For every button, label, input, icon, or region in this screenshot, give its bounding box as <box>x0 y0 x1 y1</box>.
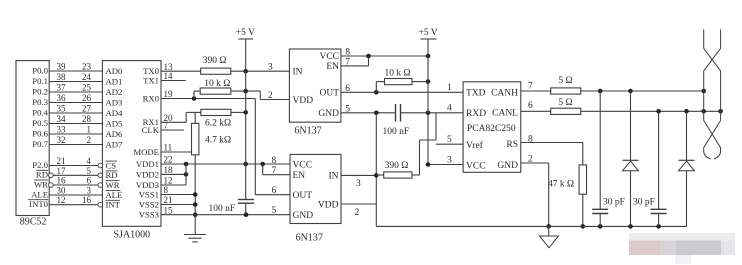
svg-text:3: 3 <box>268 62 273 72</box>
svg-text:28: 28 <box>82 114 92 124</box>
svg-text:VDD: VDD <box>318 200 339 210</box>
svg-text:P0.0: P0.0 <box>32 65 48 75</box>
svg-text:4.7 kΩ: 4.7 kΩ <box>205 135 231 145</box>
svg-text:19: 19 <box>164 89 174 99</box>
svg-text:OUT: OUT <box>293 191 313 201</box>
svg-text:8: 8 <box>164 185 169 195</box>
svg-text:SJA1000: SJA1000 <box>114 230 151 241</box>
svg-text:2: 2 <box>87 135 92 145</box>
svg-text:ALE: ALE <box>31 189 48 199</box>
svg-text:2: 2 <box>268 91 273 101</box>
svg-text:AD3: AD3 <box>106 97 123 107</box>
svg-text:TXD: TXD <box>466 89 486 99</box>
svg-text:EN: EN <box>293 171 306 181</box>
svg-text:WR: WR <box>106 180 120 190</box>
svg-text:VCC: VCC <box>319 52 339 62</box>
svg-text:3: 3 <box>356 179 361 189</box>
svg-text:MODE: MODE <box>133 147 159 157</box>
svg-text:IN: IN <box>293 68 303 78</box>
svg-text:AD0: AD0 <box>106 66 124 76</box>
svg-text:3: 3 <box>87 186 92 196</box>
svg-text:TX1: TX1 <box>143 75 159 85</box>
svg-text:VDD2: VDD2 <box>136 169 159 179</box>
svg-text:30 pF: 30 pF <box>603 197 625 207</box>
svg-text:RXD: RXD <box>466 109 486 119</box>
svg-text:6.2 kΩ: 6.2 kΩ <box>205 119 231 129</box>
svg-text:P0.2: P0.2 <box>32 86 48 96</box>
svg-text:5 Ω: 5 Ω <box>558 98 572 108</box>
svg-text:2: 2 <box>355 208 360 218</box>
svg-text:7: 7 <box>528 82 533 92</box>
svg-text:RD: RD <box>36 170 48 180</box>
svg-text:17: 17 <box>57 166 67 176</box>
svg-text:37: 37 <box>57 83 67 93</box>
svg-text:8: 8 <box>528 135 533 145</box>
svg-text:+5 V: +5 V <box>419 28 438 38</box>
svg-text:21: 21 <box>57 156 66 166</box>
svg-text:6N137: 6N137 <box>296 233 323 244</box>
svg-text:27: 27 <box>82 104 92 114</box>
svg-text:39: 39 <box>57 62 67 72</box>
svg-text:5: 5 <box>272 206 277 216</box>
svg-text:+5 V: +5 V <box>236 28 255 38</box>
svg-text:AD2: AD2 <box>106 87 123 97</box>
svg-text:AD5: AD5 <box>106 118 123 128</box>
svg-text:16: 16 <box>82 195 92 205</box>
svg-text:VSS2: VSS2 <box>139 199 159 209</box>
svg-text:14: 14 <box>164 71 174 81</box>
svg-text:P2.0: P2.0 <box>32 160 48 170</box>
svg-text:35: 35 <box>57 104 67 114</box>
svg-text:P0.4: P0.4 <box>32 107 48 117</box>
svg-text:390 Ω: 390 Ω <box>385 161 409 171</box>
svg-text:23: 23 <box>82 62 92 72</box>
svg-text:22: 22 <box>164 155 173 165</box>
svg-text:30: 30 <box>57 186 67 196</box>
svg-text:AD1: AD1 <box>106 76 123 86</box>
svg-text:1: 1 <box>87 125 92 135</box>
svg-text:VCC: VCC <box>466 161 486 171</box>
svg-text:IN: IN <box>328 172 338 182</box>
svg-text:Vref: Vref <box>466 140 484 151</box>
svg-text:4: 4 <box>87 156 92 166</box>
svg-text:10 k Ω: 10 k Ω <box>204 79 230 89</box>
svg-text:24: 24 <box>82 72 92 82</box>
svg-text:CANH: CANH <box>491 89 518 99</box>
svg-text:8: 8 <box>272 156 277 166</box>
svg-text:P0.3: P0.3 <box>32 97 48 107</box>
svg-text:11: 11 <box>164 143 173 153</box>
svg-text:GND: GND <box>293 211 314 221</box>
svg-text:32: 32 <box>57 135 66 145</box>
svg-text:VCC: VCC <box>293 161 313 171</box>
svg-text:16: 16 <box>57 176 67 186</box>
svg-text:100 nF: 100 nF <box>383 127 410 137</box>
svg-text:OUT: OUT <box>319 89 339 99</box>
svg-text:EN: EN <box>326 62 339 72</box>
svg-text:RS: RS <box>506 140 518 150</box>
svg-text:12: 12 <box>164 176 173 186</box>
svg-text:26: 26 <box>82 93 92 103</box>
svg-text:RX0: RX0 <box>143 93 160 103</box>
svg-text:6N137: 6N137 <box>294 126 321 137</box>
svg-text:6: 6 <box>87 176 92 186</box>
svg-text:VDD: VDD <box>293 96 314 106</box>
svg-text:ALE: ALE <box>106 190 123 200</box>
svg-text:RD: RD <box>106 170 118 180</box>
svg-text:VSS1: VSS1 <box>139 189 159 199</box>
svg-text:CS: CS <box>106 160 117 170</box>
svg-text:390 Ω: 390 Ω <box>203 56 227 66</box>
svg-text:6: 6 <box>528 101 533 111</box>
svg-text:P0.7: P0.7 <box>32 139 48 149</box>
svg-text:47 k Ω: 47 k Ω <box>548 180 574 190</box>
svg-text:P0.1: P0.1 <box>32 76 48 86</box>
svg-text:VSS3: VSS3 <box>139 210 159 220</box>
svg-text:VDD3: VDD3 <box>136 180 159 190</box>
svg-text:INT0: INT0 <box>29 199 48 209</box>
svg-text:AD7: AD7 <box>106 139 124 149</box>
svg-text:5: 5 <box>87 166 92 176</box>
svg-text:30 pF: 30 pF <box>633 197 655 207</box>
svg-text:CANL: CANL <box>492 109 518 119</box>
svg-text:12: 12 <box>57 195 66 205</box>
svg-text:6: 6 <box>272 186 277 196</box>
svg-text:VDD1: VDD1 <box>136 159 159 169</box>
svg-text:5 Ω: 5 Ω <box>558 76 572 86</box>
svg-text:21: 21 <box>164 195 173 205</box>
svg-text:AD4: AD4 <box>106 108 124 118</box>
svg-text:P0.5: P0.5 <box>32 118 48 128</box>
svg-text:CLK: CLK <box>142 125 160 135</box>
svg-text:33: 33 <box>57 125 67 135</box>
svg-text:GND: GND <box>318 109 339 119</box>
svg-text:100 nF: 100 nF <box>209 204 236 214</box>
svg-text:38: 38 <box>57 72 67 82</box>
svg-text:34: 34 <box>57 114 67 124</box>
svg-text:P0.6: P0.6 <box>32 128 48 138</box>
svg-text:36: 36 <box>57 93 67 103</box>
svg-text:5: 5 <box>447 135 452 145</box>
svg-text:PCA82C250: PCA82C250 <box>467 124 516 134</box>
svg-text:18: 18 <box>164 165 174 175</box>
svg-text:89C52: 89C52 <box>20 217 47 228</box>
svg-text:1: 1 <box>447 83 452 93</box>
svg-text:10 k Ω: 10 k Ω <box>385 68 411 78</box>
svg-text:7: 7 <box>272 166 277 176</box>
svg-text:4: 4 <box>447 104 452 114</box>
svg-text:15: 15 <box>164 205 174 215</box>
svg-text:INT: INT <box>106 200 121 210</box>
svg-text:GND: GND <box>497 161 518 171</box>
svg-text:AD6: AD6 <box>106 129 124 139</box>
svg-text:WR: WR <box>34 179 48 189</box>
svg-text:25: 25 <box>82 83 92 93</box>
